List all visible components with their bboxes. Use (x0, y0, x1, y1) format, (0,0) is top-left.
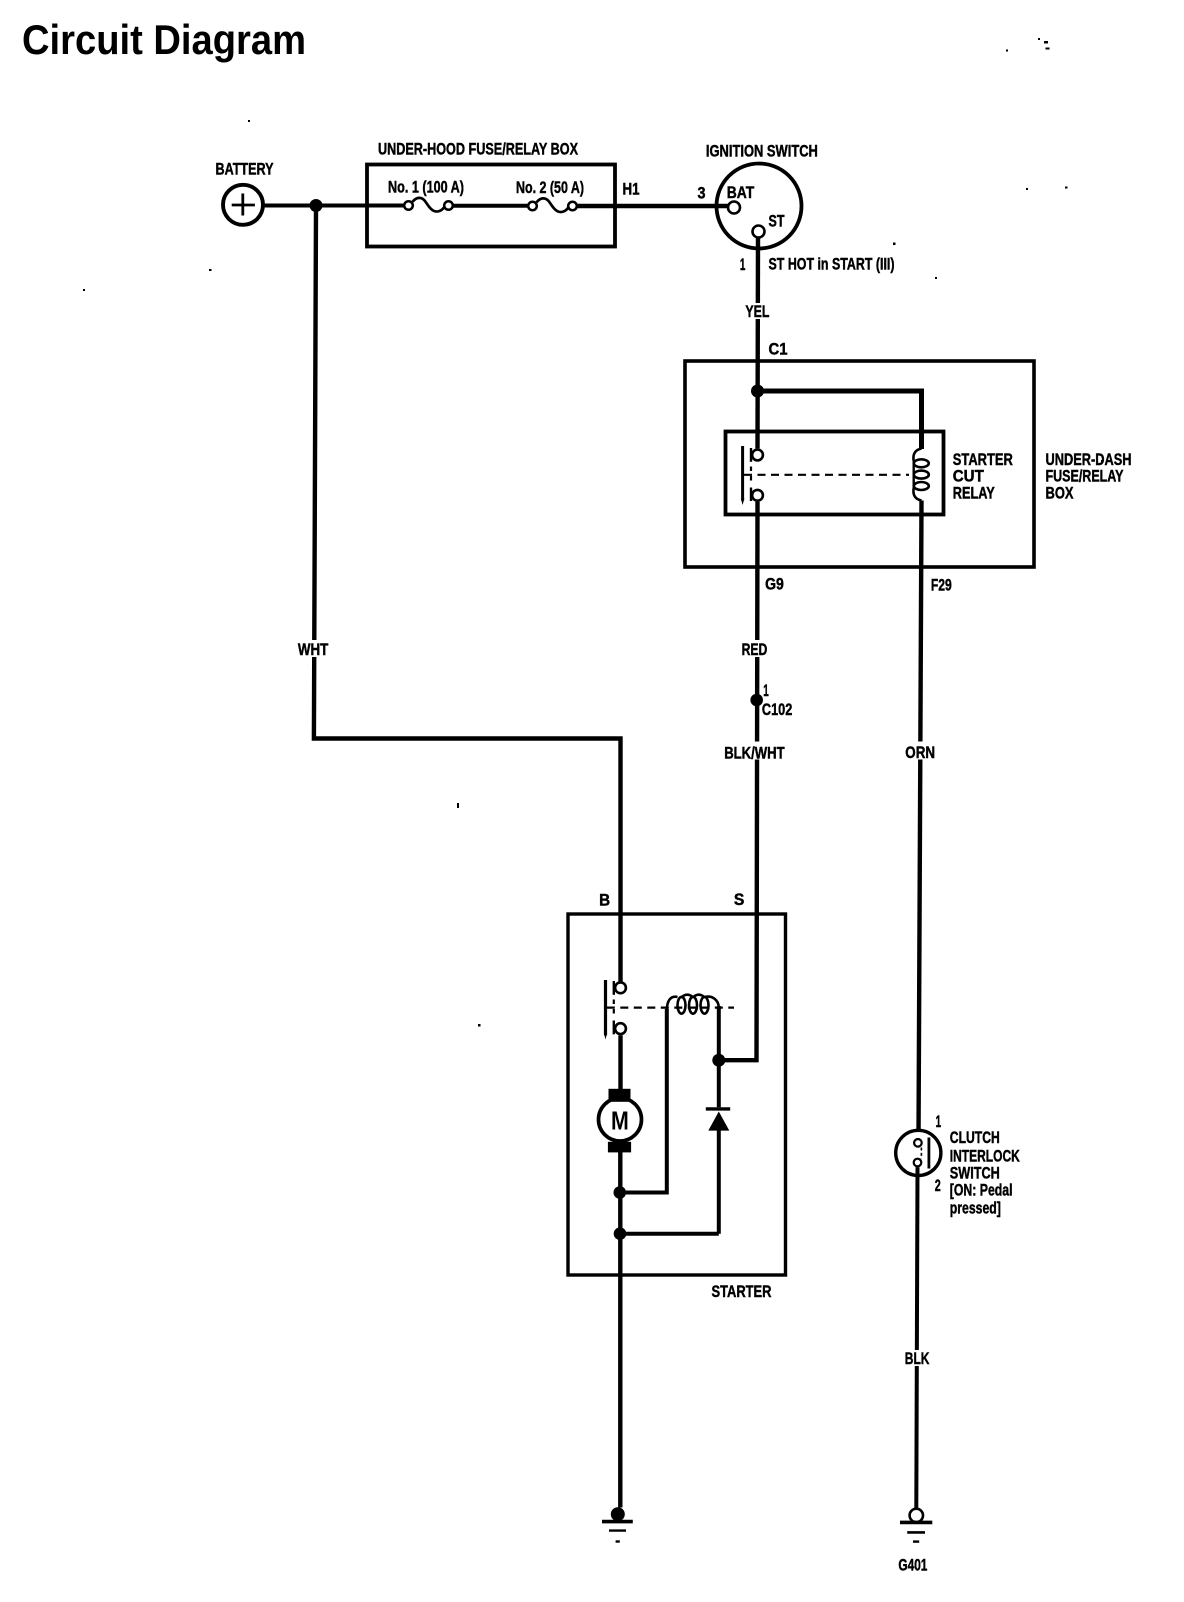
svg-text:No. 1 (100 A): No. 1 (100 A) (388, 179, 464, 197)
svg-text:1: 1 (936, 1113, 942, 1131)
relay contact terminals (752, 450, 763, 461)
battery (223, 185, 263, 225)
svg-text:YEL: YEL (745, 303, 769, 321)
junction battery node (310, 199, 323, 212)
label BLK (902, 1350, 932, 1368)
svg-text:RELAY: RELAY (953, 485, 995, 503)
wire diode to motor junction 2 (615, 1232, 719, 1236)
clutch interlock switch (896, 1130, 941, 1175)
wire RED / BLK-WHT from relay contact to starter S (719, 502, 758, 1060)
svg-text:BATTERY: BATTERY (216, 161, 274, 179)
svg-text:CUT: CUT (953, 468, 984, 486)
svg-text:[ON: Pedal: [ON: Pedal (950, 1182, 1013, 1200)
starter contact linkage dashed vertical (613, 981, 615, 1034)
svg-text:RED: RED (742, 641, 768, 659)
svg-text:CLUTCH: CLUTCH (950, 1129, 1000, 1147)
label ORN (903, 742, 938, 763)
svg-text:STARTER: STARTER (712, 1283, 772, 1301)
svg-text:3: 3 (698, 185, 706, 203)
svg-text:C1: C1 (769, 341, 788, 359)
svg-text:Circuit Diagram: Circuit Diagram (22, 16, 306, 63)
fuse No.1 (100 A) (404, 198, 453, 212)
svg-text:G401: G401 (898, 1557, 927, 1575)
label BLK/WHT (722, 742, 788, 763)
svg-text:pressed]: pressed] (950, 1199, 1001, 1217)
svg-text:WHT: WHT (298, 641, 328, 659)
svg-text:C102: C102 (762, 701, 792, 719)
svg-text:ORN: ORN (905, 744, 935, 762)
wire coil right leg to S junction (717, 1006, 721, 1107)
motor M (599, 1089, 642, 1153)
label YEL (743, 303, 771, 321)
wire H1 fuse box to ignition BAT (577, 204, 729, 208)
label CLUTCH INTERLOCK SWITCH [ON: Pedal pressed] (950, 1129, 1020, 1217)
svg-text:UNDER-HOOD FUSE/RELAY BOX: UNDER-HOOD FUSE/RELAY BOX (378, 141, 578, 159)
relay contact linkage dashed vertical (750, 448, 752, 501)
svg-text:BOX: BOX (1046, 485, 1074, 503)
svg-text:ST: ST (769, 213, 785, 231)
wire ORN from relay coil to clutch switch (919, 501, 922, 1139)
junction C1 node (751, 385, 764, 398)
svg-text:BLK: BLK (905, 1350, 930, 1368)
svg-text:BLK/WHT: BLK/WHT (724, 745, 784, 763)
svg-text:No. 2 (50 A): No. 2 (50 A) (516, 179, 584, 197)
fuse No.2 (50 A) (528, 198, 577, 212)
starter cut relay box (726, 432, 944, 515)
relay dashed actuator line (744, 474, 909, 476)
svg-text:BAT: BAT (727, 184, 755, 202)
svg-text:ST HOT in START (III): ST HOT in START (III) (769, 256, 895, 274)
relay contact bar (741, 446, 744, 501)
wire WHT vertical and horizontal to starter B (314, 206, 621, 982)
svg-text:F29: F29 (931, 576, 952, 594)
wire coil left leg to motor junction (626, 1009, 667, 1193)
svg-text:FUSE/RELAY: FUSE/RELAY (1046, 468, 1124, 486)
scan specks (83, 38, 1104, 1027)
label RED (739, 640, 770, 659)
label WHT (295, 640, 331, 659)
starter solenoid contact bar (604, 980, 607, 1035)
svg-text:1: 1 (763, 682, 769, 700)
starter dashed actuator line (607, 1006, 734, 1008)
under-dash fuse/relay box (685, 361, 1034, 567)
junction coil and S wire (712, 1054, 725, 1067)
starter box (568, 914, 786, 1275)
svg-text:B: B (599, 892, 610, 910)
label STARTER CUT RELAY (953, 451, 1013, 503)
wire YEL from ST to under-dash box (755, 238, 760, 449)
svg-text:S: S (734, 891, 745, 909)
starter contact terminals (615, 982, 626, 993)
svg-text:STARTER: STARTER (953, 451, 1013, 469)
label UNDER-DASH FUSE/RELAY BOX (1046, 451, 1132, 503)
ground left (602, 1507, 633, 1541)
svg-text:M: M (611, 1106, 629, 1136)
wire between fuses (453, 204, 527, 208)
svg-text:2: 2 (935, 1177, 941, 1195)
svg-text:1: 1 (740, 256, 746, 274)
wire BLK clutch switch to ground (916, 1167, 917, 1508)
junction motor to coil (614, 1186, 627, 1199)
ground G401 (900, 1509, 932, 1542)
wire C1 junction to relay coil (758, 391, 922, 449)
terminal ST (753, 226, 765, 238)
svg-text:UNDER-DASH: UNDER-DASH (1046, 451, 1132, 469)
svg-text:SWITCH: SWITCH (950, 1165, 1000, 1183)
terminal BAT (728, 202, 740, 214)
junction motor to diode (614, 1227, 627, 1240)
svg-text:IGNITION SWITCH: IGNITION SWITCH (706, 142, 818, 160)
svg-text:INTERLOCK: INTERLOCK (950, 1147, 1020, 1165)
wire B contact to motor and down to ground (618, 1035, 623, 1507)
wire battery to fuse box (262, 204, 405, 208)
starter solenoid coil (667, 995, 719, 1014)
relay coil (913, 449, 928, 501)
svg-text:H1: H1 (623, 181, 640, 199)
under-hood fuse/relay box (367, 165, 615, 247)
junction C102 (750, 694, 763, 707)
svg-text:G9: G9 (765, 576, 784, 594)
diode (706, 1109, 730, 1234)
ignition switch (717, 164, 802, 249)
